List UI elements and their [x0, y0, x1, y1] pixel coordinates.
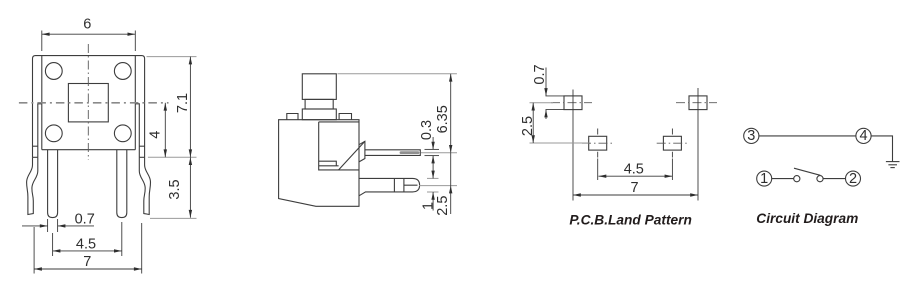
top bump left	[287, 114, 298, 120]
leg bottom extension tick	[427, 191, 439, 193]
pad upper-left	[564, 96, 582, 110]
terminal 2	[846, 171, 861, 186]
svg-text:4: 4	[859, 128, 867, 144]
ground symbol	[886, 161, 900, 163]
body bottom edge	[42, 149, 136, 151]
dimension 4 right	[148, 103, 168, 157]
svg-text:3.5: 3.5	[167, 179, 183, 199]
pin thickness ticks	[425, 148, 440, 150]
svg-text:0.3: 0.3	[419, 120, 435, 140]
leg top extension tick	[427, 177, 439, 179]
body right edge	[134, 56, 136, 150]
corner circle bottom-left	[45, 125, 62, 142]
wire 1 to contact	[772, 178, 794, 180]
button stem	[305, 99, 333, 109]
svg-text:4.5: 4.5	[624, 161, 644, 177]
pad lower-right centerlines	[657, 142, 688, 144]
svg-text:7: 7	[83, 254, 91, 270]
switch arm	[794, 168, 820, 175]
svg-text:2: 2	[849, 171, 857, 187]
side top extension line	[338, 73, 457, 75]
dimension 0.3 / 1 line	[419, 120, 436, 211]
svg-text:7: 7	[630, 180, 638, 196]
pad upper-right centerlines	[676, 102, 717, 104]
terminal 4	[856, 128, 871, 143]
svg-text:7.1: 7.1	[175, 93, 191, 113]
top bump right	[339, 114, 351, 120]
svg-text:4: 4	[148, 131, 164, 139]
contact left	[794, 176, 800, 182]
side body outline	[279, 120, 359, 207]
center square actuator	[68, 84, 108, 122]
svg-text:3: 3	[747, 128, 755, 144]
dimension 6.35 / 2.5 line	[435, 74, 452, 216]
svg-text:6: 6	[83, 17, 91, 33]
pin center extension line	[421, 152, 457, 154]
pad lower-left centerlines	[582, 142, 613, 144]
pad lower-left	[589, 136, 607, 150]
body left edge	[41, 56, 43, 150]
svg-text:2.5: 2.5	[435, 196, 451, 216]
svg-text:0.7: 0.7	[75, 212, 95, 228]
pad lower-right	[663, 136, 681, 150]
button flange	[302, 109, 336, 120]
dimension 6 top	[42, 17, 136, 51]
bracket outer outline	[33, 56, 145, 158]
leg center extension line	[419, 185, 457, 187]
terminal 1	[757, 171, 772, 186]
wire 4 to ground	[871, 136, 892, 162]
pad extension lines left	[546, 95, 565, 97]
bracket tick left lower	[33, 156, 38, 158]
bent side leg left	[27, 157, 38, 214]
dimension 3.5 right	[150, 157, 197, 218]
bracket tick right upper	[139, 145, 144, 147]
wire 3 to 4	[759, 135, 856, 137]
dimension 4.5 bottom	[53, 222, 122, 256]
button cap	[302, 74, 336, 100]
bracket tick right lower	[139, 156, 144, 158]
dimension 4.5 land	[599, 161, 673, 178]
dimension 2.5 land	[520, 103, 536, 143]
terminal 3	[744, 128, 759, 143]
bracket notch line right	[135, 104, 139, 158]
bracket notch line left	[38, 104, 42, 158]
svg-text:Circuit Diagram: Circuit Diagram	[756, 210, 858, 226]
svg-text:0.7: 0.7	[532, 64, 548, 84]
pad upper-left centerlines	[551, 102, 592, 104]
pad upper-right	[689, 96, 707, 110]
lower leg outline	[359, 178, 420, 195]
bracket tick left upper	[33, 145, 38, 147]
lower leg detail lines	[394, 178, 417, 192]
corner circle top-right	[114, 63, 131, 80]
vertical centerline	[87, 44, 89, 160]
corner circle bottom-right	[114, 125, 131, 142]
corner circle top-left	[45, 63, 62, 80]
bent side leg right	[139, 157, 150, 214]
contact right	[817, 176, 823, 182]
svg-text:4.5: 4.5	[76, 236, 96, 252]
side inner housing rect	[319, 122, 359, 170]
side diagonal contact line	[339, 141, 365, 170]
dimension 7.1 right	[147, 57, 197, 158]
inner leg right	[117, 150, 127, 218]
svg-text:1: 1	[760, 171, 768, 187]
dimension 0.7 bottom	[22, 212, 95, 233]
svg-text:P.C.B.Land Pattern: P.C.B.Land Pattern	[569, 211, 692, 227]
upper pin metal gray	[401, 151, 418, 154]
dimension 0.7 land	[532, 64, 548, 119]
side contact base trapezoid	[359, 141, 365, 162]
inner leg left	[48, 150, 58, 218]
upper pin outline	[365, 150, 420, 156]
wire contact to 2	[823, 178, 845, 180]
dimension 7 land	[573, 180, 698, 197]
svg-text:2.5: 2.5	[520, 116, 536, 136]
svg-text:6.35: 6.35	[435, 105, 451, 133]
svg-text:1: 1	[420, 202, 436, 210]
horizontal centerline	[19, 102, 169, 104]
side inner ledge	[319, 161, 339, 166]
dimension 7 bottom	[34, 223, 142, 274]
